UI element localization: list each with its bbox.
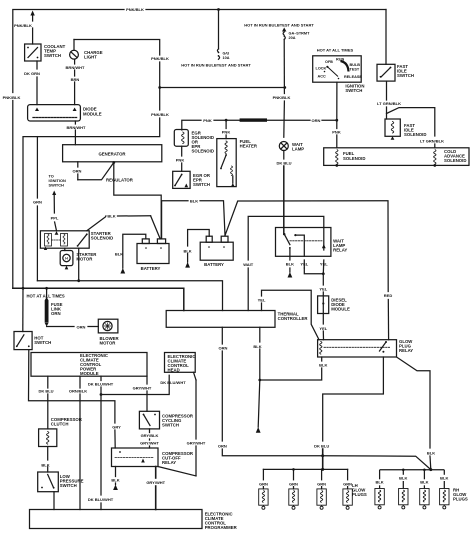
svg-text:BLK: BLK — [41, 463, 49, 468]
svg-text:WAIT: WAIT — [243, 262, 254, 267]
svg-text:LT GRN/BLK: LT GRN/BLK — [377, 101, 401, 106]
svg-text:BRN: BRN — [71, 77, 80, 82]
svg-text:MOTOR: MOTOR — [100, 341, 117, 346]
svg-text:MODULE: MODULE — [83, 112, 102, 117]
svg-text:TEST: TEST — [350, 68, 360, 72]
svg-text:DK BLU/WHT: DK BLU/WHT — [88, 382, 114, 387]
svg-text:SOLENOID: SOLENOID — [343, 156, 365, 161]
svg-text:CONTROLLER: CONTROLLER — [278, 316, 309, 321]
svg-text:MODULE: MODULE — [80, 371, 99, 376]
svg-text:PNK/BLK: PNK/BLK — [3, 95, 21, 100]
svg-text:ORN: ORN — [312, 118, 321, 123]
svg-text:ORN: ORN — [218, 444, 227, 449]
svg-text:SWITCH: SWITCH — [162, 423, 179, 428]
svg-text:YEL: YEL — [319, 326, 327, 331]
svg-text:YEL: YEL — [320, 262, 328, 267]
svg-text:PNK/BLK: PNK/BLK — [273, 95, 291, 100]
svg-text:DK BLU: DK BLU — [38, 389, 53, 394]
svg-text:CLUTCH: CLUTCH — [51, 422, 69, 427]
svg-text:RELEASE: RELEASE — [344, 75, 362, 79]
svg-text:20A: 20A — [289, 36, 296, 40]
svg-text:DK BLU/WHT: DK BLU/WHT — [88, 497, 114, 502]
svg-text:PPL: PPL — [51, 216, 59, 221]
svg-text:GRN: GRN — [343, 482, 352, 487]
svg-text:SOLENOID: SOLENOID — [404, 132, 426, 137]
svg-text:BLK: BLK — [190, 198, 198, 203]
svg-text:GENERATOR: GENERATOR — [98, 152, 126, 157]
svg-text:BLK: BLK — [375, 480, 383, 485]
svg-text:ORN: ORN — [73, 169, 82, 174]
svg-text:GRY/WHT: GRY/WHT — [133, 386, 152, 391]
svg-text:LIGHT: LIGHT — [84, 55, 97, 60]
svg-text:GRY/WHT: GRY/WHT — [146, 480, 165, 485]
svg-text:LAMP: LAMP — [292, 147, 304, 152]
svg-text:HOT AT ALL TIMES: HOT AT ALL TIMES — [317, 48, 354, 53]
svg-text:DK GRN: DK GRN — [24, 71, 40, 76]
svg-text:RED: RED — [384, 293, 393, 298]
svg-text:PROGRAMMER: PROGRAMMER — [205, 525, 238, 530]
svg-text:BLK: BLK — [115, 252, 123, 257]
svg-text:MOTOR: MOTOR — [76, 257, 93, 262]
svg-text:10A: 10A — [223, 56, 230, 60]
svg-text:GRY/WHT: GRY/WHT — [140, 441, 159, 446]
svg-text:RELAY: RELAY — [162, 460, 176, 465]
svg-text:BLK: BLK — [399, 476, 407, 481]
svg-text:SWITCH: SWITCH — [34, 340, 51, 345]
svg-text:HOT IN RUN BULBTEST AND START: HOT IN RUN BULBTEST AND START — [181, 63, 251, 68]
svg-text:GA–STRMT: GA–STRMT — [289, 32, 311, 36]
svg-text:DK BLU/WHT: DK BLU/WHT — [160, 380, 186, 385]
svg-text:SOLENOID: SOLENOID — [444, 158, 466, 163]
svg-text:ORN: ORN — [77, 325, 86, 330]
svg-text:YEL: YEL — [258, 298, 266, 303]
svg-text:BRN/WHT: BRN/WHT — [66, 65, 85, 70]
svg-text:LT GRN/BLK: LT GRN/BLK — [420, 139, 444, 144]
svg-text:BLK: BLK — [427, 451, 435, 456]
svg-text:GRY: GRY — [112, 425, 121, 430]
svg-text:BRN/WHT: BRN/WHT — [67, 125, 86, 130]
svg-text:DK BLU: DK BLU — [314, 444, 329, 449]
svg-text:H: H — [65, 257, 68, 261]
svg-text:PNK: PNK — [176, 158, 185, 163]
svg-text:GRN: GRN — [33, 200, 42, 205]
svg-text:SWITCH: SWITCH — [397, 73, 414, 78]
svg-text:SWITCH: SWITCH — [44, 53, 61, 58]
svg-text:SOLENOID: SOLENOID — [192, 149, 214, 154]
svg-text:G/U: G/U — [223, 52, 230, 56]
svg-text:HEATER: HEATER — [240, 144, 258, 149]
svg-text:SWITCH: SWITCH — [345, 88, 362, 93]
svg-text:PNK/BLK: PNK/BLK — [151, 56, 169, 61]
svg-text:YEL: YEL — [300, 262, 308, 267]
svg-text:BLK: BLK — [286, 262, 294, 267]
svg-text:PNK/BLK: PNK/BLK — [151, 112, 169, 117]
svg-text:YEL: YEL — [319, 287, 327, 292]
svg-text:LOCK: LOCK — [316, 67, 327, 71]
svg-text:BATTERY: BATTERY — [204, 262, 224, 267]
svg-text:SOLENOID: SOLENOID — [91, 235, 113, 240]
svg-text:GRN: GRN — [289, 482, 298, 487]
svg-text:BLK: BLK — [107, 214, 115, 219]
svg-text:SWITCH: SWITCH — [60, 483, 77, 488]
svg-text:BLK: BLK — [420, 480, 428, 485]
svg-text:GRN: GRN — [317, 482, 326, 487]
svg-text:SWITCH: SWITCH — [49, 183, 65, 188]
svg-text:ORN/BLK: ORN/BLK — [69, 389, 87, 394]
svg-text:REGULATOR: REGULATOR — [106, 178, 134, 183]
svg-text:ORN: ORN — [51, 311, 61, 316]
svg-text:ORN: ORN — [219, 346, 228, 351]
svg-text:ACC: ACC — [318, 75, 326, 79]
svg-text:PLUGS: PLUGS — [453, 497, 468, 502]
svg-text:HOT AT ALL TIMES: HOT AT ALL TIMES — [27, 294, 65, 299]
svg-text:BLK: BLK — [440, 476, 448, 481]
svg-text:BLK: BLK — [319, 363, 327, 368]
svg-text:PNK/BLK: PNK/BLK — [126, 7, 144, 12]
svg-text:PNK: PNK — [203, 118, 212, 123]
svg-text:PNK: PNK — [332, 130, 341, 135]
svg-text:GRY/BLK: GRY/BLK — [141, 433, 159, 438]
svg-text:BULB: BULB — [350, 63, 361, 67]
svg-text:BATTERY: BATTERY — [141, 266, 161, 271]
svg-text:BLK: BLK — [111, 478, 119, 483]
svg-text:DK BLU: DK BLU — [276, 161, 291, 166]
svg-text:MODULE: MODULE — [331, 307, 350, 312]
svg-text:RELAY: RELAY — [333, 248, 347, 253]
svg-text:BLK: BLK — [253, 344, 261, 349]
svg-text:PNK/BLK: PNK/BLK — [14, 23, 32, 28]
svg-text:RELAY: RELAY — [399, 348, 413, 353]
svg-text:SWITCH: SWITCH — [193, 182, 210, 187]
svg-text:PLUGS: PLUGS — [352, 492, 367, 497]
svg-text:HOT IN RUN BULBTEST AND START: HOT IN RUN BULBTEST AND START — [244, 23, 314, 28]
svg-text:HEAD: HEAD — [168, 368, 180, 373]
svg-text:PNK: PNK — [222, 130, 231, 135]
svg-text:BLK: BLK — [183, 248, 191, 253]
svg-text:GRY/WHT: GRY/WHT — [187, 441, 206, 446]
svg-text:GRN: GRN — [259, 482, 268, 487]
